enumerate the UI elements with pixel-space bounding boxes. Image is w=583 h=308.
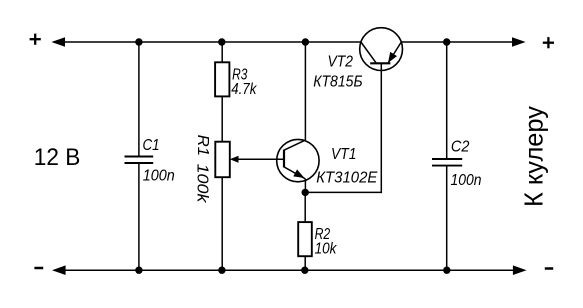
svg-text:100k: 100k xyxy=(193,164,210,204)
svg-text:VT1: VT1 xyxy=(331,146,356,163)
wire: VT1 collector to top rail xyxy=(304,42,306,140)
node: top rail / C1 junction xyxy=(135,38,142,45)
wire: C2 branch bottom xyxy=(446,167,448,271)
svg-text:C2: C2 xyxy=(451,139,470,156)
node: bottom rail / R1 junction xyxy=(218,267,225,274)
svg-text:100n: 100n xyxy=(451,172,482,189)
wire: top rail left segment (+12V input) with left arrowhead xyxy=(51,37,361,47)
transistor VT2 (КТ815Б) symbol xyxy=(360,28,403,71)
node: top rail / R3 junction xyxy=(218,38,225,45)
minus terminal right xyxy=(545,267,553,270)
wire: C1 branch bottom xyxy=(138,164,140,270)
capacitor C2 plates xyxy=(432,159,462,166)
resistor R3 body xyxy=(215,62,229,96)
node: VT1 emitter / R2 / VT2 base junction xyxy=(302,189,309,196)
wire: R3/R1 branch from top rail xyxy=(221,42,223,62)
potentiometer R1 wiper arrow and wire to VT1 base xyxy=(230,156,284,163)
wire: R2 bottom to negative rail xyxy=(304,256,306,270)
svg-text:К кулеру: К кулеру xyxy=(519,106,549,207)
node: bottom rail / C1 junction xyxy=(135,267,142,274)
wire: C1 branch top xyxy=(138,42,140,156)
wire: R3 bottom to R1 top xyxy=(221,96,223,141)
svg-text:10k: 10k xyxy=(315,241,338,258)
svg-text:КТ815Б: КТ815Б xyxy=(313,74,362,91)
wire: emitter node right to VT2 base (horizontal + vertical) xyxy=(305,63,381,193)
node: top rail / VT1 collector junction xyxy=(302,38,309,45)
potentiometer R1 body xyxy=(215,142,230,178)
svg-text:12 В: 12 В xyxy=(34,144,81,171)
svg-text:4.7k: 4.7k xyxy=(231,81,257,98)
transistor VT1 (КТ3102Е) symbol xyxy=(277,139,319,181)
wire: R1 bottom to negative rail xyxy=(221,177,223,270)
node: bottom rail / R2 junction xyxy=(301,267,308,274)
svg-text:КТ3102Е: КТ3102Е xyxy=(316,170,378,187)
wire: VT1 emitter down to node xyxy=(304,179,306,193)
wire: bottom rail (negative) with arrowheads both ends xyxy=(52,265,527,275)
wire: top rail right segment (output to cooler) with right arrowhead xyxy=(401,37,525,47)
plus terminal left xyxy=(30,34,41,45)
svg-text:R1: R1 xyxy=(194,135,211,157)
plus terminal right xyxy=(543,37,554,48)
node: bottom rail / C2 junction xyxy=(443,267,450,274)
node: top rail / C2 junction xyxy=(443,38,450,45)
svg-text:C1: C1 xyxy=(143,137,160,154)
svg-text:100n: 100n xyxy=(143,167,175,184)
minus terminal left xyxy=(34,267,43,270)
wire: emitter node to R2 xyxy=(304,192,306,222)
capacitor C1 plates xyxy=(125,157,154,164)
wire: C2 branch top xyxy=(446,42,448,158)
svg-text:VT2: VT2 xyxy=(328,54,353,71)
resistor R2 body xyxy=(298,222,312,256)
